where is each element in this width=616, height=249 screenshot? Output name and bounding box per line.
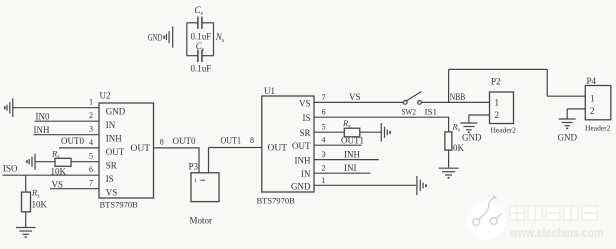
wire resistor to ground (pin5) (36, 161, 56, 163)
svg-text:BTS7970B: BTS7970B (100, 200, 139, 210)
svg-text:5: 5 (89, 152, 93, 161)
U2 pin numbers 1-7 (89, 98, 93, 188)
resistor R 0K (IS1 net) (445, 122, 465, 153)
svg-text:VS: VS (349, 92, 361, 102)
svg-text:Header2: Header2 (585, 124, 611, 133)
wire U1 pin1 GND (314, 184, 416, 186)
svg-text:4: 4 (89, 138, 93, 147)
svg-text:SR: SR (299, 128, 310, 138)
svg-text:GND: GND (148, 33, 163, 43)
svg-text:GND: GND (462, 133, 482, 143)
wire U2 pin8 OUT0 (154, 147, 200, 149)
svg-text:1: 1 (322, 176, 326, 185)
ground (U2 pin1, rotated) (4, 98, 13, 117)
svg-text:INH: INH (344, 150, 360, 160)
wire U1 pin5 SR to resistor (314, 131, 344, 133)
wire U2 pin1 GND (13, 107, 99, 109)
svg-text:1: 1 (194, 178, 197, 184)
capacitor C bottom 0.1uF (198, 50, 202, 62)
ground (P4 pin2) (559, 119, 576, 129)
svg-text:OUT: OUT (292, 141, 311, 151)
svg-text:2: 2 (590, 106, 595, 116)
wire OUT1 down to motor (208, 148, 210, 173)
svg-text:SR: SR (106, 161, 117, 171)
wire switch to P2 pin1 (422, 101, 490, 103)
wire R to ground (448, 150, 450, 167)
svg-text:www.elecfans.com: www.elecfans.com (509, 225, 604, 240)
svg-text:OUT1: OUT1 (341, 135, 364, 145)
svg-text:P2: P2 (491, 77, 501, 87)
svg-text:IN0: IN0 (36, 112, 50, 122)
svg-text:VS: VS (52, 180, 64, 190)
ground (SR, rotated right) (381, 123, 391, 142)
svg-text:NBB: NBB (450, 92, 466, 102)
svg-text:IS: IS (302, 113, 310, 123)
svg-text:0.1uF: 0.1uF (191, 64, 212, 74)
wire resistor to U2 pin5 (71, 161, 99, 163)
resistor R (SR net) (342, 118, 360, 137)
svg-text:Header2: Header2 (491, 126, 517, 135)
ground (U2 pin5, rotated) (26, 154, 35, 170)
ground (below 0K resistor) (439, 168, 459, 178)
svg-text:5: 5 (322, 123, 326, 132)
svg-text:VS: VS (299, 99, 311, 109)
wire U1 pin7 VS to switch (314, 101, 403, 103)
svg-text:7: 7 (89, 179, 93, 188)
svg-text:INH: INH (34, 125, 50, 135)
wire NBB up (448, 69, 450, 102)
ground (U1 pin1, rotated right) (417, 176, 427, 195)
svg-text:P3: P3 (189, 162, 199, 172)
connector P4 body (585, 86, 611, 120)
wire IS down to R (448, 117, 450, 132)
svg-text:INH: INH (295, 156, 311, 166)
svg-text:IN: IN (301, 169, 311, 179)
wire down to P4 (546, 69, 548, 96)
svg-text:OUT: OUT (268, 144, 288, 154)
U2 pin labels inside (106, 107, 126, 198)
wire U2 pin7 VS (50, 188, 99, 190)
switch SW2 (403, 91, 421, 104)
svg-text:2: 2 (89, 111, 93, 120)
wire U1 pin4 OUT1 (314, 144, 362, 146)
svg-text:2: 2 (495, 110, 500, 120)
svg-text:8: 8 (160, 137, 164, 146)
capacitor C top 0.1uF (198, 17, 202, 29)
svg-text:1: 1 (495, 98, 500, 108)
svg-text:OUT: OUT (131, 144, 151, 154)
op chip U2 body (99, 103, 154, 198)
svg-text:VS: VS (106, 188, 118, 198)
resistor R 10K (ISO pulldown) (22, 188, 48, 212)
svg-text:10K: 10K (32, 200, 48, 210)
svg-text:6: 6 (89, 165, 93, 174)
wire loop for capacitors (187, 23, 214, 56)
wire U1 pin2 IN1 (314, 172, 370, 174)
op chip U1 body (262, 96, 314, 192)
svg-text:IS: IS (106, 174, 114, 184)
P3 tiny pin marks (194, 178, 205, 184)
svg-text:2: 2 (322, 164, 326, 173)
svg-text:ISO: ISO (3, 164, 18, 174)
svg-text:GND: GND (558, 133, 578, 143)
wire U2 pin6 IS (3, 174, 100, 176)
wire U2 pin2 IN (35, 120, 99, 122)
svg-text:OUT0: OUT0 (173, 136, 196, 146)
wire U1 pin8 OUT1 (209, 147, 262, 149)
connector P3 body (191, 173, 219, 202)
ground (P2 pin2) (460, 123, 477, 133)
svg-text:INH: INH (106, 134, 122, 144)
svg-text:3: 3 (322, 150, 326, 159)
ground (bottom left) (16, 228, 36, 238)
wire to P4 pin1 (547, 95, 585, 97)
svg-text:U1: U1 (264, 86, 275, 96)
svg-text:OUT1: OUT1 (221, 135, 242, 145)
wire junction down to R (ISO net) (25, 175, 27, 192)
svg-text:1: 1 (590, 94, 595, 104)
svg-text:7: 7 (322, 93, 326, 102)
svg-text:SW2: SW2 (402, 107, 417, 117)
svg-text:0K: 0K (453, 143, 465, 153)
wire OUT0 down to motor (198, 148, 200, 173)
wire U2 pin3 INH (33, 134, 99, 136)
svg-text:3: 3 (89, 125, 93, 134)
svg-text:OUT: OUT (106, 147, 125, 157)
connector P2 body (490, 92, 514, 124)
svg-text:4: 4 (322, 136, 326, 145)
wire U2 pin4 OUT (59, 147, 99, 149)
svg-text:Motor: Motor (190, 216, 213, 226)
svg-text:6: 6 (322, 108, 326, 117)
svg-text:P4: P4 (587, 76, 597, 86)
wire resistor to ground (25, 212, 27, 227)
wire U1 pin6 IS (314, 116, 449, 118)
wire resistor to ground (SR) (360, 131, 382, 133)
resistor R 10K (U2 pin5 SR) (51, 149, 72, 177)
wire P2 pin2 to ground (469, 115, 490, 123)
svg-text:IN: IN (106, 120, 116, 130)
elecfans watermark logo circle (467, 195, 506, 240)
wire NBB top horizontal (449, 68, 548, 70)
svg-text:INI: INI (344, 163, 357, 173)
svg-text:1: 1 (89, 98, 93, 107)
svg-text:U2: U2 (100, 91, 111, 101)
wire P4 pin2 to ground (567, 109, 585, 119)
svg-text:OUT0: OUT0 (61, 136, 84, 146)
ground (top, rotated left of caps) (163, 26, 172, 47)
svg-text:8: 8 (250, 136, 254, 145)
watermark chinese glyph blocks (510, 204, 597, 224)
svg-text:GND: GND (291, 182, 311, 192)
svg-text:GND: GND (106, 107, 126, 117)
wire U1 pin3 INH (314, 159, 379, 161)
svg-text:IS1: IS1 (425, 107, 438, 117)
U1 pin labels inside right (291, 99, 311, 192)
svg-text:BTS7970B: BTS7970B (257, 196, 296, 206)
U1 pin numbers 7-1 (322, 93, 326, 185)
